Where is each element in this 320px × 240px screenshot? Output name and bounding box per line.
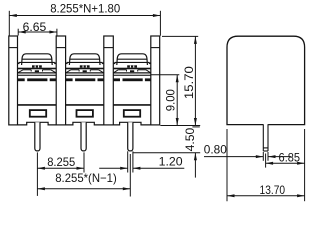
svg-text:8.255: 8.255: [47, 155, 75, 169]
svg-text:4.50: 4.50: [183, 127, 197, 151]
dimension 13.70 side body width: [227, 129, 305, 201]
pole 1 screw head dome: [18, 54, 57, 65]
barrier post P2: [56, 36, 65, 125]
side view body: [227, 36, 305, 124]
svg-text:8.255*N+1.80: 8.255*N+1.80: [50, 1, 120, 15]
svg-text:13.70: 13.70: [260, 183, 286, 197]
pole 3 clamp top band: [113, 68, 151, 70]
pole 1 solder pin: [35, 122, 40, 151]
pole 2 screw head dome: [66, 54, 104, 65]
barrier post P3: [104, 36, 114, 125]
svg-text:8.255*(N−1): 8.255*(N−1): [55, 171, 117, 185]
pole 1 wire entry hole: [30, 110, 46, 117]
dimension 4.50 pin length: [133, 127, 200, 178]
dimension 8.255 pin pitch: [37, 152, 84, 196]
pole 2 screw slot marks: [80, 65, 90, 67]
dimension 0.80 side pin thickness: [204, 142, 291, 160]
pole 1 screw slot marks: [32, 65, 42, 67]
pole 3 base band: [113, 78, 150, 81]
pole 1 wire clamp plate: [18, 70, 57, 73]
front view body bottom profile: [9, 122, 160, 125]
pole 2 wire clamp plate: [66, 70, 104, 73]
pole 2 solder pin: [81, 122, 86, 151]
barrier post P4: [151, 36, 160, 125]
pole 3 wire clamp plate: [113, 70, 151, 73]
pole 3 screw slot marks: [127, 65, 137, 67]
front view body division line: [9, 104, 160, 106]
dimension 9.00 body height: [151, 75, 179, 126]
pole 1 clamp top band: [18, 68, 57, 70]
svg-text:6.85: 6.85: [279, 150, 301, 164]
pole 2 wire entry hole: [77, 110, 93, 117]
pole 3 solder pin: [128, 122, 133, 151]
barrier post P1: [9, 36, 18, 125]
svg-text:9.00: 9.00: [163, 89, 177, 111]
pole 1 clamp bottom line: [18, 75, 57, 76]
pole 2 clamp top band: [66, 68, 104, 70]
pole 2 base band: [66, 78, 104, 81]
pole 2 clamp bottom line: [66, 75, 104, 76]
side view solder pin: [263, 123, 268, 151]
svg-text:6.65: 6.65: [23, 20, 47, 34]
dimension 8.255*(N-1) outer pin span: [37, 154, 130, 197]
pole 3 wire entry hole: [124, 110, 140, 117]
pole 1 base band: [18, 78, 57, 81]
svg-text:1.20: 1.20: [159, 154, 183, 168]
pole 3 screw head dome: [113, 54, 151, 65]
svg-text:15.70: 15.70: [182, 66, 196, 99]
dimension 6.85 pin to edge: [266, 150, 305, 167]
dimension 15.70 overall height: [160, 36, 200, 125]
dimension 8.255*N+1.80 overall width: [9, 1, 160, 35]
dimension 1.20 pin width: [99, 151, 184, 172]
dimension 6.65 opening width: [18, 20, 57, 36]
pole 3 clamp bottom line: [113, 75, 151, 76]
svg-text:0.80: 0.80: [204, 142, 227, 156]
